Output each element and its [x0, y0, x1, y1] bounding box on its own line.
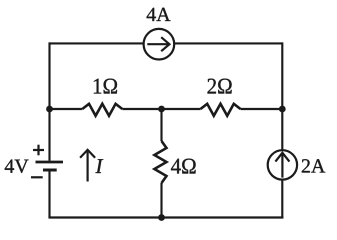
resistor R3 4ohm zigzag: [154, 141, 166, 183]
wire 4ohm bottom lead: [160, 183, 162, 218]
battery minus sign: [31, 176, 43, 178]
wire left rail upper: [48, 42, 50, 160]
wire 4ohm top lead: [160, 109, 162, 141]
resistor R1 1ohm zigzag: [82, 104, 122, 116]
battery plus sign: [33, 145, 44, 156]
voltage source V1 battery long plate: [36, 161, 64, 164]
wire right rail lower: [281, 180, 283, 219]
wire right rail upper: [281, 42, 283, 150]
label 4ohm: [171, 159, 196, 174]
node bottom junction: [158, 214, 165, 221]
node center junction: [158, 106, 165, 113]
current source I2 2A circle: [268, 150, 297, 179]
wire top-right segment: [175, 42, 283, 44]
current source I1 arrow: [147, 37, 169, 51]
resistor R2 2ohm zigzag: [201, 104, 241, 116]
wire bottom rail: [48, 216, 283, 218]
voltage source V1 battery short plate: [43, 169, 57, 172]
current source I2 arrow: [275, 153, 289, 178]
label 2A: [302, 159, 325, 172]
wire left rail lower: [48, 171, 50, 217]
wire middle-left segment: [50, 108, 83, 110]
label I: [95, 159, 103, 173]
label 2ohm: [208, 79, 232, 94]
label 4V: [5, 160, 29, 173]
wire middle-center segment: [122, 108, 200, 110]
node left-middle junction: [46, 106, 53, 113]
wire middle-right segment: [241, 108, 283, 110]
label 1ohm: [94, 79, 117, 94]
label 4A: [147, 8, 171, 21]
node right-middle junction: [279, 106, 286, 113]
wire top-left segment: [50, 42, 144, 44]
current source I1 4A circle: [144, 29, 175, 60]
current arrow I: [80, 150, 95, 182]
